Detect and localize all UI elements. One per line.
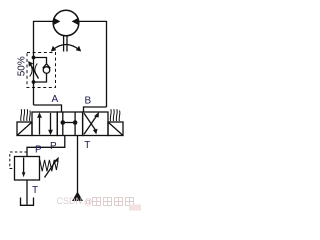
wire motor left port to flow control valve bbox=[34, 21, 54, 105]
DV1 centre position through lines bbox=[63, 112, 75, 136]
wire port B bracket bbox=[84, 107, 107, 112]
directional valve DV1 left position box bbox=[32, 112, 57, 136]
motor M1 right flow triangle bbox=[72, 18, 78, 25]
solenoid Y1 (left) bbox=[17, 122, 32, 136]
watermark corner patch bbox=[129, 205, 141, 211]
svg-text:A: A bbox=[52, 94, 59, 105]
centering spring right bbox=[110, 109, 120, 121]
wire P port to relief line bbox=[27, 136, 65, 157]
throttle restriction arcs bbox=[30, 64, 38, 77]
RV1 adjustment arrow bbox=[45, 161, 57, 178]
svg-text:T: T bbox=[84, 140, 90, 151]
flow control valve V1 enclosure (dashed) bbox=[27, 53, 56, 88]
relief valve RV1 body bbox=[15, 157, 40, 181]
DV1 left position up arrow P to A bbox=[39, 116, 41, 135]
RV1 internal flow arrow bbox=[23, 158, 25, 174]
directional valve DV1 right position box bbox=[83, 112, 108, 136]
motor M1 left flow triangle bbox=[54, 18, 60, 25]
motor M1 bidirectional rotation arrow bbox=[53, 45, 80, 51]
DV1 centre position connector with junctions bbox=[63, 122, 75, 124]
node junction top of bypass bbox=[32, 56, 36, 60]
check valve CV1 seat bbox=[43, 64, 51, 68]
directional valve DV1 centre position box bbox=[57, 112, 82, 136]
throttle adjustment arrow bbox=[31, 65, 39, 79]
svg-text:CSDN: CSDN bbox=[57, 196, 83, 206]
tank symbol (return line, triangle) bbox=[72, 192, 83, 202]
solenoid Y2 (right) bbox=[108, 122, 123, 136]
svg-text:50%: 50% bbox=[16, 56, 27, 76]
svg-text:T: T bbox=[32, 185, 38, 196]
motor M1 shaft bbox=[64, 36, 67, 52]
DV1 right position crossed arrow P to B bbox=[84, 116, 97, 134]
DV1 right position crossed arrow A to T bbox=[84, 113, 96, 130]
wire port A bracket bbox=[34, 105, 62, 112]
centering spring left bbox=[21, 109, 31, 121]
svg-text:@: @ bbox=[84, 198, 92, 207]
wire RV1 outlet to tank bbox=[26, 180, 28, 205]
hydraulic motor M1 body bbox=[53, 10, 79, 36]
DV1 left position down arrow B to T bbox=[50, 113, 52, 131]
wire motor right port down right side bbox=[79, 21, 107, 107]
RV1 spring bbox=[40, 160, 58, 172]
node junction bottom of bypass bbox=[32, 80, 36, 84]
wire T port return line bbox=[77, 136, 79, 194]
wire bypass branch lower bbox=[34, 73, 47, 82]
svg-text:P: P bbox=[35, 145, 42, 156]
svg-text:B: B bbox=[85, 96, 92, 107]
wire bypass branch upper bbox=[34, 58, 47, 64]
svg-text:P: P bbox=[50, 141, 57, 152]
RV1 pilot line (dashed) bbox=[10, 152, 27, 169]
check valve CV1 ball bbox=[43, 67, 50, 74]
tank symbol (relief outlet) bbox=[21, 198, 34, 206]
